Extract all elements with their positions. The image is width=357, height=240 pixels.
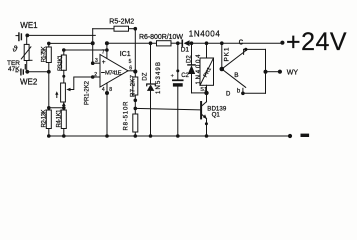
svg-text:R1-75K: R1-75K [41, 46, 47, 62]
svg-text:PR1-2K2: PR1-2K2 [85, 80, 91, 105]
svg-text:1N5349B: 1N5349B [156, 62, 162, 94]
svg-text:D2: D2 [187, 55, 193, 63]
svg-text:D1: D1 [181, 47, 190, 54]
svg-text:8: 8 [109, 87, 112, 93]
svg-text:R5-2M2: R5-2M2 [109, 18, 134, 25]
svg-text:6: 6 [129, 65, 132, 71]
svg-text:C2: C2 [181, 73, 189, 79]
svg-text:R6-800R/10W: R6-800R/10W [139, 34, 183, 41]
svg-text:WE1: WE1 [20, 21, 38, 30]
svg-text:D: D [226, 91, 231, 97]
svg-text:3: 3 [95, 58, 98, 64]
svg-text:2: 2 [94, 72, 97, 78]
svg-text:R7-2K7: R7-2K7 [131, 74, 137, 97]
svg-text:4: 4 [102, 87, 105, 93]
svg-text:WE2: WE2 [20, 78, 38, 87]
svg-text:ϑ: ϑ [13, 43, 18, 53]
svg-text:Q1: Q1 [212, 111, 221, 118]
svg-text:+24V: +24V [286, 28, 347, 56]
svg-text:1N4004: 1N4004 [189, 29, 221, 38]
svg-text:5: 5 [129, 59, 132, 65]
svg-text:R3-1K1: R3-1K1 [58, 54, 64, 71]
svg-text:PK1: PK1 [223, 47, 230, 61]
svg-text:c: c [239, 36, 244, 46]
svg-text:7: 7 [102, 49, 105, 55]
svg-text:IC1: IC1 [120, 51, 131, 58]
svg-text:M741E: M741E [105, 70, 122, 76]
svg-text:B: B [234, 72, 238, 79]
svg-text:R8-510R: R8-510R [124, 101, 130, 131]
svg-text:R2-13K: R2-13K [41, 110, 47, 128]
svg-text:WY: WY [287, 70, 299, 77]
svg-text:47K: 47K [8, 66, 20, 73]
svg-text:DZ: DZ [143, 72, 149, 80]
svg-text:+: + [102, 59, 106, 66]
svg-text:S1: S1 [200, 87, 207, 93]
svg-text:+: + [171, 73, 174, 79]
svg-text:R4-1K1: R4-1K1 [56, 109, 62, 128]
